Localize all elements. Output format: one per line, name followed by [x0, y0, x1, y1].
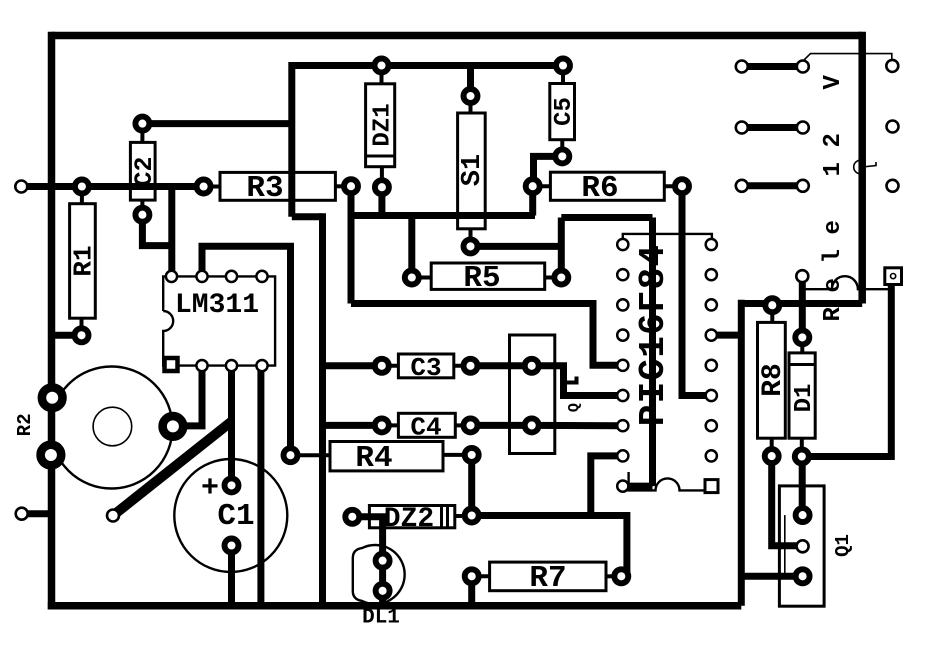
capacitor C3 lead left: [382, 364, 399, 368]
svg-text:PIC16F84: PIC16F84: [633, 244, 674, 426]
svg-text:D1: D1: [791, 384, 818, 413]
wire trunk from inner rail through R3 box: [288, 62, 295, 217]
pad R4 left: [284, 448, 298, 462]
svg-text:R7: R7: [529, 561, 566, 596]
resistor R7 lead left: [472, 574, 490, 578]
wire C2 bottom jog: [142, 215, 171, 246]
wire C2 top pad to vertical trunk: [142, 120, 291, 127]
pad R4 right: [465, 448, 479, 462]
switch S1 lead bottom: [469, 229, 473, 247]
wire right border: [858, 32, 866, 304]
pad D1 bottom: [795, 450, 809, 464]
pad R8 bottom: [765, 449, 779, 463]
zener diode DZ1 body: [366, 84, 395, 167]
pad R3 right: [344, 179, 358, 193]
pad C3 left: [375, 359, 389, 373]
resistor R4 body: [330, 442, 443, 471]
wire LM311 pin3 down to C1 plus: [228, 366, 235, 486]
wire branch trunk to C4 left pad: [323, 422, 382, 429]
wire C4 row to PIC pin: [471, 422, 623, 429]
pad DZ1 top: [375, 59, 389, 73]
wire D1 bottom to Q1 collector: [799, 457, 806, 516]
wire top border (+V rail): [52, 32, 863, 40]
pad relay pin 3a: [736, 180, 748, 192]
wire DZ1 bottom stub to mid rail: [378, 187, 385, 215]
pad relay pin 2b: [797, 122, 809, 134]
pad R7 right: [614, 569, 628, 583]
capacitor C3 body: [398, 354, 453, 378]
svg-text:Rele 12 V: Rele 12 V: [820, 60, 847, 321]
wire diagonal to test pad: [113, 422, 232, 516]
zener diode DZ2 body: [369, 506, 454, 528]
transistor Q overlay body: [510, 335, 555, 454]
svg-text:R5: R5: [463, 261, 500, 296]
pad output connector 2: [887, 121, 899, 133]
resistor R1 lead bottom: [80, 318, 84, 335]
resistor R5 lead right: [545, 276, 562, 280]
wire trunk x=322 down to bottom border: [319, 213, 326, 606]
wire branch up to PIC pin: [591, 456, 623, 516]
pad DZ2 left: [345, 510, 359, 524]
resistor R8 lead bottom: [770, 438, 774, 456]
svg-text:DZ1: DZ1: [370, 103, 397, 146]
IC U2 pin1-pin18 top connecting line: [623, 234, 712, 245]
svg-text:LM311: LM311: [175, 290, 259, 321]
pad D1 top: [795, 330, 809, 344]
wire trunk rail to LM311 pin8: [168, 187, 175, 277]
pad C4 left: [375, 418, 389, 432]
svg-text:S1: S1: [458, 154, 488, 186]
capacitor C3 lead right: [454, 364, 471, 368]
resistor R5 body: [431, 263, 545, 289]
wire bridge y=217.5: [561, 214, 652, 221]
wire LM311 pin7 jog down to R4 left pad: [202, 246, 291, 455]
svg-text:R4: R4: [355, 441, 392, 476]
zener DZ2 lead right: [455, 514, 472, 518]
resistor R3 lead left: [204, 185, 220, 189]
svg-text:+: +: [201, 472, 219, 506]
pad R2 terminal A: [42, 387, 63, 408]
wire PIC pin9 bar: [623, 483, 653, 490]
pad Q1 base: [797, 540, 809, 552]
R2 potentiometer body outline: [51, 367, 173, 489]
pad DZ2 right: [465, 509, 479, 523]
wire main rail y=186 (input node): [24, 183, 204, 190]
resistor R3 body: [220, 172, 335, 200]
pad LM311 pin 1 (square): [165, 358, 178, 371]
pads PIC16F84 pins 18-11 (right column): [706, 239, 717, 250]
wire LM311 pin2 down to R2 wiper: [173, 366, 202, 426]
wire trunk jog right: [292, 213, 323, 220]
pad R1 top / rail junction: [75, 180, 89, 194]
pad S1 top: [464, 89, 478, 103]
op-amp U1 LM311 body outline: [163, 276, 275, 365]
wire branch trunk to C3 left pad: [323, 362, 382, 369]
pad R1 bottom: [75, 328, 89, 342]
wire bar right side at y=303: [741, 300, 862, 307]
pad test point (diagonal end): [107, 510, 119, 522]
resistor R6 lead right: [664, 184, 682, 188]
svg-text:Q: Q: [566, 403, 583, 412]
diode D1 body: [789, 353, 815, 438]
thin link pad row to corner pad top right: [804, 54, 892, 61]
capacitor C4 lead left: [382, 423, 399, 427]
pad C1 minus: [225, 539, 239, 553]
svg-text:R2: R2: [14, 413, 36, 436]
resistor R8 body: [758, 322, 786, 438]
zener DZ1 lead top: [380, 66, 384, 84]
svg-text:C3: C3: [410, 353, 441, 383]
wire DZ2 left pad to DL1 chain: [352, 517, 382, 606]
resistor R5 lead left: [412, 276, 431, 280]
capacitor C2 lead top: [140, 124, 144, 143]
pad C4 right: [464, 418, 478, 432]
relay contact bar 3: [742, 182, 803, 189]
wire S1 top stub: [467, 66, 474, 97]
svg-text:R6: R6: [581, 171, 618, 206]
switch S1 lead top: [469, 96, 473, 113]
pad R5 right: [554, 271, 568, 285]
svg-text:C1: C1: [217, 499, 254, 534]
resistor R1 lead top: [80, 187, 84, 204]
svg-text:DL1: DL1: [362, 607, 400, 630]
wire R6 right pad down to PIC pin: [682, 186, 711, 395]
capacitor C2 lead bottom: [140, 200, 144, 215]
IC U2 PIC16F84 body outline (notch end): [629, 472, 707, 490]
capacitor C1 body outline: [174, 459, 287, 572]
resistor R1 body: [70, 204, 96, 319]
wire PIC pin bar to right vertical: [711, 332, 741, 339]
svg-text:C5: C5: [551, 97, 578, 126]
pads PIC16F84 pins 1-9 (left column): [617, 239, 628, 250]
pad R3 left: [197, 180, 211, 194]
wire LM311 pin4 down to ground: [257, 366, 264, 606]
pad output connector 1: [886, 60, 898, 72]
resistor R3 lead right: [335, 184, 351, 188]
pads LM311 pins 2-4 (bottom row): [196, 360, 207, 371]
pad C5 bottom: [555, 149, 569, 163]
pad DZ1 bottom: [375, 180, 389, 194]
wire rail y=303 to PIC: [351, 304, 623, 366]
wire inner top rail y=65: [292, 62, 563, 69]
pad input connector 2: [16, 508, 28, 520]
pad R2 terminal B: [41, 445, 62, 466]
wire mid rail y=215.5: [351, 212, 535, 219]
pad relay pin 3b: [797, 180, 809, 192]
pad C2 top: [135, 117, 149, 131]
svg-text:R3: R3: [246, 171, 283, 206]
wire right inner vertical to bottom corner: [738, 300, 745, 606]
pad R6 right: [675, 179, 689, 193]
pad relay pin 1b: [797, 61, 809, 73]
capacitor C5 lead bottom: [560, 140, 564, 157]
pad output corner (square): [885, 268, 902, 285]
wire bottom border (ground): [48, 602, 742, 610]
resistor R7 lead right: [606, 574, 621, 578]
zener DZ1 lead bottom: [380, 167, 384, 188]
relay body outline (bottom edge with coil bump): [802, 276, 891, 289]
wire left connector pad 2 stub: [22, 510, 55, 517]
pad output connector 3: [887, 180, 899, 192]
relay outline latch mark on right border: [854, 160, 876, 174]
zener DZ2 lead left: [352, 515, 369, 519]
wire C1 minus down to ground: [228, 546, 235, 606]
transistor Q1 body: [779, 486, 824, 606]
wire D1 bottom row to right loop: [802, 285, 892, 457]
pad C2 bottom: [135, 208, 149, 222]
pad R2 wiper: [163, 416, 184, 437]
relay contact bar 1: [742, 63, 803, 70]
pad PIC16F84 pin 10 (square): [705, 480, 718, 493]
wire Q1 emitter bar to ground vertical: [741, 573, 802, 580]
pad S1 bottom: [464, 239, 478, 253]
svg-text:R1: R1: [69, 245, 99, 276]
LED DL1 body outline: [353, 545, 405, 604]
pad input connector 1: [15, 181, 27, 193]
pad R5 left: [405, 271, 419, 285]
wire R5 right pad up to bridge: [558, 218, 565, 278]
wire R5 left pad up to mid rail: [408, 216, 415, 278]
capacitor C4 lead right: [455, 423, 470, 427]
wire left border: [48, 32, 56, 610]
pad relay pin 2a: [736, 122, 748, 134]
resistor R6 body: [550, 172, 664, 200]
pad Q1 collector: [796, 508, 810, 522]
svg-text:R8: R8: [758, 363, 789, 397]
pad R7 left: [465, 569, 479, 583]
diode D1 lead bottom: [800, 438, 804, 456]
wire C5 bottom jog to R6 left pad: [534, 156, 563, 186]
diode D1 lead top: [800, 337, 804, 353]
pad relay coil node: [796, 270, 808, 282]
pad Q collector node: [525, 359, 539, 373]
capacitor C4 body: [398, 413, 455, 437]
R2 potentiometer shaft hole: [93, 407, 132, 446]
switch S1 body: [458, 113, 486, 229]
wire S1 bottom to R5 right node: [471, 243, 562, 250]
wire R4 right pad down to DZ2 right pad: [468, 455, 475, 516]
resistor R4 lead left: [291, 453, 330, 457]
pad DL1 cathode: [376, 584, 390, 598]
wire long vertical x=652 through PIC label: [649, 218, 656, 487]
wire C3 row: [471, 362, 532, 369]
pad relay pin 1a: [736, 61, 748, 73]
svg-text:C2: C2: [130, 156, 159, 186]
svg-text:Q1: Q1: [832, 534, 854, 557]
resistor R4 lead right: [443, 453, 472, 457]
wire DZ2 right row to R7 right pad: [472, 516, 627, 577]
wire stub left connector pad to rail: [21, 183, 30, 190]
resistor R7 body: [490, 562, 606, 591]
pad R6 left: [526, 179, 540, 193]
relay contact bar 2: [742, 124, 803, 131]
resistor R6 lead left: [533, 184, 551, 188]
wire R7 left pad to ground: [468, 576, 475, 606]
wire R8 bottom to Q1 base: [772, 456, 803, 546]
pad DL1 anode: [376, 554, 390, 568]
wire Q transistor tick mark: [566, 377, 577, 383]
pads LM311 pins 8-5 (top row): [166, 271, 177, 282]
capacitor C2 body: [130, 142, 155, 200]
wire R8 top stub: [770, 304, 774, 323]
pad C3 right: [464, 359, 478, 373]
svg-text:C4: C4: [410, 413, 441, 443]
wire C3 node to PIC pin: [532, 366, 623, 396]
wire R3 right pad down: [348, 186, 355, 303]
pad Q emitter node: [525, 418, 539, 432]
svg-text:DZ2: DZ2: [384, 504, 434, 535]
pad C1 plus: [225, 478, 239, 492]
wire R1 bottom to left border: [52, 332, 82, 339]
wire R6 left pad down to mid rail: [529, 186, 536, 215]
pad C5 top: [556, 59, 570, 73]
wire D1 top pad up to relay node: [799, 278, 806, 337]
pad R8 top: [765, 298, 779, 312]
capacitor C5 lead top: [561, 66, 565, 84]
capacitor C5 body: [550, 84, 575, 140]
pad Q1 emitter: [796, 569, 810, 583]
